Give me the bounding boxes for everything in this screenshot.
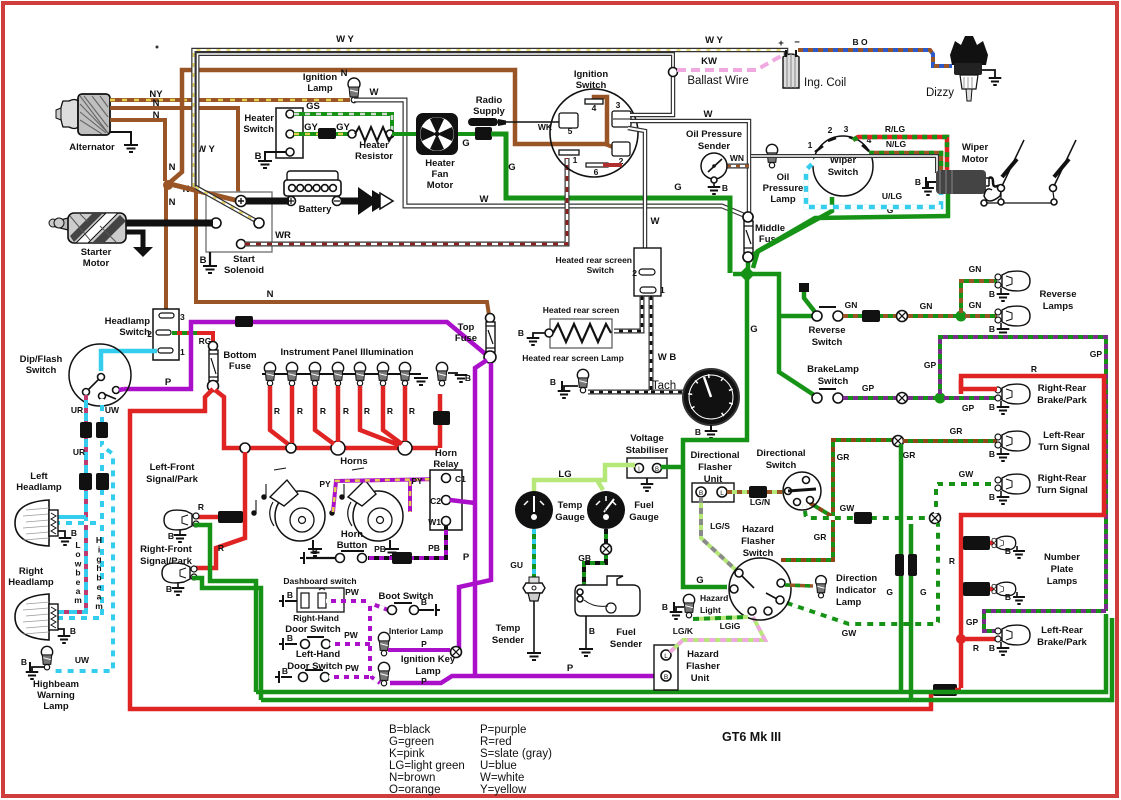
svg-text:Horns: Horns bbox=[340, 456, 367, 467]
svg-text:1: 1 bbox=[180, 347, 185, 357]
svg-text:G: G bbox=[674, 182, 681, 193]
svg-text:GW: GW bbox=[959, 469, 975, 479]
svg-text:Starter: Starter bbox=[81, 247, 112, 258]
svg-text:Lamps: Lamps bbox=[1043, 301, 1074, 312]
wire UR dip/flash to headlamps bbox=[58, 395, 86, 612]
svg-text:Horn: Horn bbox=[341, 529, 363, 540]
svg-text:N: N bbox=[169, 162, 176, 173]
right-rear turn signal lamp bbox=[995, 477, 1001, 483]
svg-text:Reverse: Reverse bbox=[1040, 289, 1077, 300]
wire RG headlamp switch to bottom fuse bbox=[172, 331, 200, 335]
svg-text:Dip/Flash: Dip/Flash bbox=[20, 354, 63, 365]
solenoid contacts bbox=[211, 218, 221, 228]
svg-text:P: P bbox=[463, 552, 470, 563]
svg-text:Fuel: Fuel bbox=[616, 627, 636, 638]
svg-text:N: N bbox=[169, 197, 176, 208]
svg-text:GP: GP bbox=[962, 403, 975, 413]
svg-text:Ignition: Ignition bbox=[303, 72, 337, 83]
wire N/LG bbox=[869, 153, 941, 171]
wire G diamond to hazard area bbox=[683, 276, 747, 587]
svg-text:B: B bbox=[282, 666, 288, 676]
svg-text:Brake/Park: Brake/Park bbox=[1037, 637, 1087, 648]
svg-text:KW: KW bbox=[701, 56, 717, 67]
svg-text:N=brown: N=brown bbox=[389, 772, 435, 784]
svg-text:GR: GR bbox=[950, 426, 963, 436]
svg-text:3: 3 bbox=[699, 384, 703, 391]
svg-text:B: B bbox=[71, 528, 77, 538]
svg-text:Radio: Radio bbox=[476, 95, 503, 106]
svg-text:Heated rear screen: Heated rear screen bbox=[543, 305, 620, 315]
svg-text:Supply: Supply bbox=[473, 106, 505, 117]
left-rear brake/park lamp bbox=[956, 634, 966, 644]
svg-text:Fan: Fan bbox=[432, 169, 449, 180]
wire N solenoid bottom to top fuse bbox=[196, 192, 489, 315]
svg-text:GW: GW bbox=[840, 503, 856, 513]
svg-text:Direction: Direction bbox=[836, 573, 877, 584]
svg-text:GN: GN bbox=[969, 264, 982, 274]
svg-text:Solenoid: Solenoid bbox=[224, 265, 264, 276]
svg-text:5: 5 bbox=[717, 382, 721, 389]
svg-text:Alternator: Alternator bbox=[69, 142, 115, 153]
wire UW branch to highbeam warning lamp bbox=[52, 446, 113, 671]
svg-text:Right-Front: Right-Front bbox=[140, 544, 193, 555]
ignition contact 4 bbox=[585, 99, 603, 104]
wire N2 alternator to junction bbox=[110, 120, 165, 181]
temp gauge bbox=[515, 491, 553, 529]
wire N1 alternator to solenoid bbox=[110, 108, 241, 199]
svg-text:Top: Top bbox=[458, 322, 475, 333]
svg-text:Ignition Key: Ignition Key bbox=[401, 654, 456, 665]
svg-text:Light: Light bbox=[700, 605, 721, 615]
heater resistor bbox=[348, 130, 356, 138]
panel lamp 4 bbox=[332, 362, 343, 373]
svg-text:R=red: R=red bbox=[480, 736, 512, 748]
svg-text:B: B bbox=[312, 546, 318, 556]
number plate lamp 2 bbox=[961, 587, 994, 592]
svg-text:P: P bbox=[165, 377, 172, 388]
svg-text:R: R bbox=[409, 406, 415, 416]
wire N junction to solenoid + bbox=[166, 183, 243, 202]
starter cable bbox=[126, 220, 213, 227]
svg-text:B: B bbox=[589, 626, 595, 636]
svg-text:6: 6 bbox=[723, 389, 727, 396]
panel lamp 7 bbox=[399, 362, 410, 373]
svg-text:Switch: Switch bbox=[743, 548, 774, 559]
svg-text:B: B bbox=[1005, 592, 1011, 602]
svg-text:GS: GS bbox=[306, 101, 320, 112]
svg-text:GY: GY bbox=[304, 122, 318, 133]
wire G rails down to bottom bbox=[899, 444, 904, 692]
svg-text:W: W bbox=[651, 216, 660, 227]
svg-text:Flasher: Flasher bbox=[686, 661, 720, 672]
purple main feed P bbox=[124, 322, 489, 389]
panel lamp 8 with ground bbox=[436, 362, 447, 373]
red to left-front signal/park bbox=[196, 452, 245, 568]
svg-text:GN: GN bbox=[920, 301, 933, 311]
starter motor bbox=[49, 213, 126, 243]
svg-text:LG/S: LG/S bbox=[710, 521, 730, 531]
svg-text:P: P bbox=[567, 663, 574, 674]
svg-text:FUE: FUE bbox=[602, 508, 611, 513]
svg-text:P: P bbox=[421, 676, 427, 686]
svg-text:B: B bbox=[989, 643, 995, 653]
wire N junction up to top brown feed bbox=[168, 70, 607, 184]
svg-text:PW: PW bbox=[345, 587, 360, 597]
svg-text:Number: Number bbox=[1044, 552, 1080, 563]
svg-text:B: B bbox=[989, 449, 995, 459]
svg-text:Brake/Park: Brake/Park bbox=[1037, 395, 1087, 406]
wiper blade right bbox=[1050, 185, 1057, 192]
svg-text:Dashboard switch: Dashboard switch bbox=[283, 576, 356, 586]
svg-text:B: B bbox=[255, 151, 262, 162]
svg-text:Instrument Panel Illumination: Instrument Panel Illumination bbox=[280, 347, 413, 358]
svg-text:R: R bbox=[1031, 364, 1037, 374]
svg-text:Sender: Sender bbox=[492, 635, 525, 646]
svg-text:B: B bbox=[168, 531, 174, 541]
wire U/LG bbox=[806, 160, 941, 207]
svg-text:U=blue: U=blue bbox=[480, 760, 517, 772]
svg-text:B: B bbox=[518, 328, 524, 338]
alternator ground bbox=[110, 132, 131, 144]
svg-text:Heater: Heater bbox=[244, 113, 274, 124]
svg-text:BrakeLamp: BrakeLamp bbox=[807, 364, 859, 375]
svg-text:Switch: Switch bbox=[828, 167, 859, 178]
svg-text:Ignition: Ignition bbox=[574, 69, 608, 80]
wire G stabiliser to green loop bbox=[661, 465, 683, 470]
svg-text:Heated rear screen Lamp: Heated rear screen Lamp bbox=[522, 353, 624, 363]
svg-text:Switch: Switch bbox=[818, 376, 849, 387]
svg-text:GR: GR bbox=[837, 452, 850, 462]
svg-text:PB: PB bbox=[428, 543, 440, 553]
svg-text:LG/K: LG/K bbox=[673, 626, 694, 636]
svg-text:S=slate (gray): S=slate (gray) bbox=[480, 748, 552, 760]
wire GY heater switch to resistor bbox=[294, 132, 350, 136]
svg-text:W: W bbox=[370, 87, 379, 98]
svg-text:W Y: W Y bbox=[197, 144, 215, 155]
hazard flasher unit bbox=[654, 645, 678, 690]
wiper motor ground bbox=[928, 182, 936, 187]
reverse lamp lower bbox=[995, 309, 1001, 315]
svg-text:B: B bbox=[550, 377, 556, 387]
svg-text:GP: GP bbox=[862, 383, 875, 393]
wire W ignition lamp to middle fuse bbox=[354, 100, 746, 216]
svg-text:Highbeam: Highbeam bbox=[33, 679, 79, 690]
wiper switch contacts bbox=[815, 137, 869, 152]
svg-text:R: R bbox=[364, 406, 370, 416]
svg-text:Middle: Middle bbox=[755, 223, 785, 234]
heater fan motor bbox=[416, 113, 458, 155]
wire BO coil to dizzy bbox=[798, 50, 952, 66]
heater switch ground bbox=[265, 152, 286, 160]
svg-text:Left: Left bbox=[30, 471, 48, 482]
battery cable arrow bbox=[341, 198, 362, 205]
svg-text:Flasher: Flasher bbox=[698, 462, 732, 473]
svg-text:UR: UR bbox=[73, 447, 85, 457]
svg-text:Flasher: Flasher bbox=[741, 536, 775, 547]
svg-text:Gauge: Gauge bbox=[555, 512, 585, 523]
svg-text:GP: GP bbox=[966, 617, 979, 627]
svg-text:B: B bbox=[21, 657, 27, 667]
wire U to dip/flash switch bbox=[101, 351, 157, 371]
panel lamp 5 bbox=[354, 362, 365, 373]
svg-text:B: B bbox=[664, 674, 668, 681]
svg-text:W B: W B bbox=[658, 352, 677, 363]
ignition contact 6 bbox=[586, 163, 608, 167]
svg-text:G: G bbox=[462, 138, 469, 149]
svg-text:G: G bbox=[886, 587, 893, 597]
wire LG/S flasher unit to hazard switch bbox=[701, 497, 737, 571]
wire KW ballast bbox=[677, 55, 783, 70]
wire WY supply to coil bbox=[194, 50, 787, 187]
svg-text:LGiG: LGiG bbox=[720, 621, 741, 631]
svg-text:Dizzy: Dizzy bbox=[926, 87, 954, 99]
reverse switch feed bbox=[779, 314, 814, 319]
svg-text:+: + bbox=[778, 38, 784, 49]
svg-text:B: B bbox=[465, 373, 471, 383]
ignition contact 1 bbox=[559, 150, 579, 155]
svg-text:B: B bbox=[421, 597, 427, 607]
wire PW dashboard to distribution bbox=[326, 599, 370, 603]
start solenoid bbox=[206, 192, 272, 252]
svg-text:Button: Button bbox=[337, 540, 368, 551]
left-front park feed tap bbox=[196, 515, 244, 520]
svg-text:Hazard: Hazard bbox=[687, 649, 719, 660]
svg-text:Bottom: Bottom bbox=[223, 350, 256, 361]
wire WN oil pressure sender bbox=[727, 164, 749, 169]
svg-text:Left-Rear: Left-Rear bbox=[1041, 625, 1083, 636]
svg-text:Voltage: Voltage bbox=[630, 433, 664, 444]
svg-text:Hazard: Hazard bbox=[742, 524, 774, 535]
svg-text:Motor: Motor bbox=[83, 258, 110, 269]
svg-text:N: N bbox=[341, 68, 348, 79]
svg-text:Right-Hand: Right-Hand bbox=[293, 613, 339, 623]
boot switch bbox=[370, 603, 388, 610]
svg-text:N: N bbox=[267, 289, 274, 300]
svg-text:L: L bbox=[720, 490, 724, 497]
wire GR hazard to left-rear turn bbox=[781, 440, 893, 560]
ignition contact 5 bbox=[559, 113, 578, 128]
svg-text:7: 7 bbox=[723, 399, 727, 406]
svg-text:6: 6 bbox=[594, 167, 599, 177]
svg-text:N: N bbox=[153, 98, 160, 109]
svg-text:Headlamp: Headlamp bbox=[105, 316, 151, 327]
wire GU temp gauge to sender bbox=[532, 529, 536, 577]
svg-text:LG=light green: LG=light green bbox=[389, 760, 465, 772]
svg-text:Pressure: Pressure bbox=[763, 183, 804, 194]
svg-text:B: B bbox=[70, 626, 76, 636]
wire N branch to ignition contact 2 bbox=[605, 144, 615, 148]
svg-text:Ing. Coil: Ing. Coil bbox=[804, 77, 846, 89]
svg-text:Right-Rear: Right-Rear bbox=[1038, 383, 1087, 394]
svg-text:W: W bbox=[480, 194, 489, 205]
wire PB relay W1 to horn button bbox=[368, 525, 446, 558]
wire LGiG hazard light to switch bbox=[693, 617, 748, 619]
svg-text:R: R bbox=[320, 406, 326, 416]
svg-text:Switch: Switch bbox=[766, 460, 797, 471]
svg-text:R: R bbox=[387, 406, 393, 416]
svg-text:Headlamp: Headlamp bbox=[8, 577, 54, 588]
svg-text:Relay: Relay bbox=[433, 459, 459, 470]
svg-text:B: B bbox=[1005, 546, 1011, 556]
fuel tank (fuel sender) bbox=[575, 576, 640, 616]
svg-text:G: G bbox=[696, 575, 703, 586]
svg-text:B: B bbox=[655, 467, 659, 473]
right headlamp bbox=[15, 594, 49, 640]
svg-text:GP: GP bbox=[1090, 349, 1103, 359]
svg-text:W1: W1 bbox=[428, 517, 441, 527]
horn left bbox=[275, 491, 325, 541]
svg-text:B: B bbox=[699, 490, 703, 497]
svg-text:B: B bbox=[989, 492, 995, 502]
svg-text:R: R bbox=[949, 556, 955, 566]
svg-text:P: P bbox=[421, 639, 427, 649]
svg-text:Indicator: Indicator bbox=[836, 585, 876, 596]
ignition switch bbox=[550, 89, 638, 177]
svg-text:Lamp: Lamp bbox=[770, 194, 796, 205]
svg-text:GP: GP bbox=[924, 360, 937, 370]
svg-text:Resistor: Resistor bbox=[355, 151, 393, 162]
alternator bbox=[56, 94, 110, 135]
svg-text:WN: WN bbox=[730, 153, 744, 163]
wire UW dip/flash to headlamps bbox=[58, 399, 102, 618]
svg-text:Lamp: Lamp bbox=[836, 597, 862, 608]
hazard flasher switch bbox=[729, 558, 791, 620]
svg-text:B: B bbox=[287, 590, 293, 600]
right-rear brake/park lamp bbox=[995, 387, 1001, 393]
svg-text:C1: C1 bbox=[455, 474, 466, 484]
svg-text:Lamp: Lamp bbox=[43, 701, 69, 712]
middle fuse terminals redraw bbox=[743, 212, 753, 222]
wire W supply to ballast junction bbox=[198, 54, 674, 187]
svg-text:L: L bbox=[664, 653, 668, 660]
svg-text:Wiper: Wiper bbox=[962, 142, 989, 153]
wire W to wiper motor bbox=[751, 156, 937, 173]
svg-text:Switch: Switch bbox=[119, 327, 150, 338]
tach bbox=[683, 369, 739, 425]
svg-text:R/LG: R/LG bbox=[885, 124, 906, 134]
svg-text:UW: UW bbox=[75, 655, 90, 665]
svg-text:Switch: Switch bbox=[576, 80, 607, 91]
svg-text:Motor: Motor bbox=[427, 180, 454, 191]
bottom fuse bbox=[209, 342, 218, 351]
svg-text:Signal/Park: Signal/Park bbox=[146, 474, 198, 485]
svg-text:Temp: Temp bbox=[496, 623, 521, 634]
green from right-front park bbox=[192, 578, 261, 700]
svg-text:LG: LG bbox=[558, 469, 571, 480]
svg-text:GT6 Mk III: GT6 Mk III bbox=[722, 730, 781, 744]
red feed from bottom fuse bbox=[130, 389, 931, 709]
wire GN reverse switch to lamps bbox=[843, 314, 897, 318]
wire G diamond to reverse/brake feed bbox=[733, 274, 814, 395]
junction interior lamp P bbox=[451, 647, 462, 658]
svg-text:PY: PY bbox=[319, 479, 331, 489]
svg-text:Door Switch: Door Switch bbox=[285, 624, 341, 635]
svg-text:Fuse: Fuse bbox=[229, 361, 251, 372]
svg-text:C2: C2 bbox=[430, 496, 441, 506]
wiper blade left bbox=[998, 185, 1005, 192]
ignition lamp bbox=[348, 78, 360, 90]
svg-text:Start: Start bbox=[233, 254, 255, 265]
svg-text:W Y: W Y bbox=[705, 35, 723, 46]
svg-text:GR: GR bbox=[903, 450, 916, 460]
wire WR solenoid to ignition contact 1 bbox=[237, 240, 246, 249]
svg-text:Switch: Switch bbox=[26, 365, 57, 376]
wiper motor bbox=[936, 170, 986, 194]
svg-text:UW: UW bbox=[105, 405, 120, 415]
svg-text:Lamp: Lamp bbox=[307, 83, 333, 94]
wire GW hazard lower loop bbox=[781, 523, 938, 624]
svg-text:Oil: Oil bbox=[777, 172, 790, 183]
svg-text:K=pink: K=pink bbox=[389, 748, 425, 760]
svg-text:4: 4 bbox=[592, 103, 597, 113]
svg-text:−: − bbox=[794, 37, 800, 48]
wire GS bbox=[294, 114, 392, 132]
dip/flash switch bbox=[69, 344, 131, 406]
svg-text:B: B bbox=[662, 602, 668, 612]
reverse lamp upper bbox=[995, 274, 1001, 280]
panel lamp 3 bbox=[309, 362, 320, 373]
svg-text:R.P.M.: R.P.M. bbox=[704, 405, 719, 411]
svg-text:GN: GN bbox=[969, 300, 982, 310]
wire W contact3 to ballast point bbox=[630, 75, 673, 115]
svg-text:G=green: G=green bbox=[389, 736, 434, 748]
svg-text:W=white: W=white bbox=[480, 772, 524, 784]
svg-text:Interior Lamp: Interior Lamp bbox=[389, 626, 443, 636]
svg-text:B: B bbox=[695, 427, 701, 437]
svg-text:5: 5 bbox=[568, 126, 573, 136]
wire G resistor to fan motor bbox=[392, 132, 417, 136]
wire N junction down to headlamp switch bbox=[164, 185, 168, 309]
starter ground bbox=[126, 232, 143, 247]
svg-text:B: B bbox=[200, 255, 207, 266]
wiper linkage bbox=[987, 202, 1054, 204]
svg-text:N: N bbox=[153, 110, 160, 121]
ignition contact 2 bbox=[612, 142, 630, 156]
svg-text:1: 1 bbox=[808, 140, 813, 150]
svg-text:Switch: Switch bbox=[812, 337, 843, 348]
svg-text:Battery: Battery bbox=[299, 204, 332, 215]
svg-text:W: W bbox=[704, 109, 713, 120]
svg-text:1: 1 bbox=[573, 155, 578, 165]
svg-text:Unit: Unit bbox=[691, 673, 710, 684]
svg-text:N/LG: N/LG bbox=[886, 139, 907, 149]
svg-text:Right: Right bbox=[19, 566, 44, 577]
left headlamp bbox=[15, 500, 49, 546]
wire GR directional switch tap bbox=[810, 503, 833, 517]
svg-text:LG/N: LG/N bbox=[750, 497, 770, 507]
direction indicator lamp bbox=[785, 585, 813, 586]
svg-text:Left-Rear: Left-Rear bbox=[1043, 430, 1085, 441]
wire LG/K hazard unit to hazard switch bbox=[670, 617, 765, 652]
wire W contact3 to middle fuse bbox=[630, 121, 749, 213]
panel lamp 6 bbox=[377, 362, 388, 373]
directional switch bbox=[783, 472, 821, 510]
svg-text:GR: GR bbox=[814, 532, 827, 542]
dizzy (distributor) bbox=[950, 36, 988, 101]
svg-text:PW: PW bbox=[344, 630, 359, 640]
svg-text:W Y: W Y bbox=[336, 34, 354, 45]
svg-text:Sender: Sender bbox=[698, 141, 731, 152]
svg-text:U/LG: U/LG bbox=[882, 191, 903, 201]
solenoid battery cable bbox=[243, 198, 289, 205]
svg-text:2: 2 bbox=[632, 268, 637, 278]
svg-text:Turn Signal: Turn Signal bbox=[1036, 485, 1088, 496]
svg-text:3: 3 bbox=[616, 100, 621, 110]
wire P dip/flash to main P bbox=[119, 389, 124, 390]
svg-text:Gauge: Gauge bbox=[629, 512, 659, 523]
svg-text:1: 1 bbox=[660, 285, 665, 295]
red branch to panel lamps bbox=[215, 390, 438, 448]
